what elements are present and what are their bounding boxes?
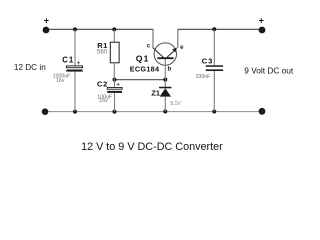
body circle [154,43,176,65]
node C3 top [212,27,216,31]
node C2 bottom [113,110,117,114]
svg-text:+: + [44,15,49,25]
svg-text:C3: C3 [202,56,213,65]
zener diode Z1 [151,80,181,112]
svg-text:9 Volt DC out: 9 Volt DC out [244,66,294,76]
base wire [164,59,166,80]
svg-text:Z1: Z1 [151,88,161,97]
node C1 top [73,27,77,31]
emitter wire [177,29,179,48]
svg-text:16v: 16v [56,78,65,84]
node C3 bottom [212,110,216,114]
svg-text:12 V to 9 V DC-DC Converter: 12 V to 9 V DC-DC Converter [81,141,223,153]
svg-text:12 DC in: 12 DC in [14,63,46,72]
wire mid (C2 to base node) [115,79,166,81]
transistor Q1 [130,29,184,79]
terminal + output positive [259,15,266,33]
wire top rail left [48,28,154,30]
emitter arrowhead [172,48,177,53]
capacitor C1 [53,29,83,111]
terminal + input positive [43,15,50,33]
wire top rail right [178,28,260,30]
terminal output negative [259,108,266,115]
node R1 top [112,27,116,31]
node C1 bottom [73,110,77,114]
svg-text:C1: C1 [62,56,74,65]
node Z1 bottom [163,110,167,114]
capacitor C2 [97,79,122,111]
svg-text:560: 560 [97,50,108,56]
svg-text:16v: 16v [99,98,108,104]
node C2 top [113,78,117,82]
svg-text:+: + [259,15,264,25]
svg-text:b: b [168,66,172,73]
wire bottom rail [47,111,259,113]
collector diagonal [153,48,164,58]
svg-text:ECG184: ECG184 [130,64,160,73]
collector wire [152,29,154,48]
svg-text:C2: C2 [97,79,108,88]
capacitor C3 [196,29,223,111]
node base/zener [163,78,167,82]
svg-text:Q1: Q1 [136,53,150,63]
svg-text:330nF: 330nF [196,74,211,80]
resistor R1 [97,29,119,79]
base bar [157,57,173,59]
emitter diagonal [167,49,176,58]
svg-text:9.1V: 9.1V [170,101,181,107]
terminal input negative [42,108,49,115]
